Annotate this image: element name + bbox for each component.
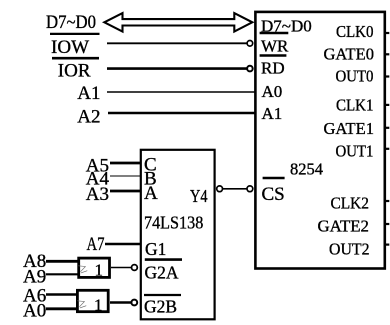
stub CLK1 [385,104,389,106]
wire A8 to OR1 [46,260,79,263]
svg-text:CLK1: CLK1 [336,96,374,115]
svg-text:OUT2: OUT2 [329,240,370,259]
svg-text:GATE2: GATE2 [318,216,370,235]
svg-text:A: A [144,183,158,204]
svg-text:G2A: G2A [145,262,179,282]
svg-text:A9: A9 [23,266,46,287]
svg-text:OUT1: OUT1 [336,141,374,160]
pin bubble RD [247,66,253,72]
svg-text:RD: RD [261,59,285,78]
svg-text:WR: WR [261,37,289,56]
wire A7 to G1 [105,243,141,246]
wire OR1 output [111,267,131,269]
stub CLK0 [385,32,389,34]
stub OUT2 [385,244,389,246]
svg-text:Y4: Y4 [190,186,208,206]
wire A9 to OR1 [46,273,79,275]
wire A4 to B [110,175,141,177]
svg-text:G2B: G2B [144,297,177,317]
svg-text:GATE1: GATE1 [324,119,375,138]
wire A1 to A0 [107,91,255,93]
svg-text:CLK0: CLK0 [336,22,374,41]
OR gate U3 (>=1) [77,290,108,311]
svg-text:IOW: IOW [51,37,89,58]
pin bubble G2B [131,300,137,306]
stub OUT1 [385,148,389,150]
decoder 74LS138 box [141,150,215,319]
svg-text:IOR: IOR [58,61,91,82]
svg-text:OUT0: OUT0 [336,66,374,85]
wire A3 to A [110,190,141,193]
svg-text:GATE0: GATE0 [324,44,375,63]
bus D7~D0 double arrow [104,13,252,31]
svg-text:A0: A0 [262,82,283,101]
svg-text:CLK2: CLK2 [331,194,370,213]
wire A2 to A1 [108,112,255,115]
pin bubble Y4 [217,186,223,192]
svg-text:A7: A7 [87,234,105,255]
svg-text:A3: A3 [86,184,109,205]
IC 8254 box [255,12,384,269]
svg-text:A1: A1 [77,83,100,104]
pin bubble G2A [132,265,138,271]
wire OR2 output [110,301,131,304]
overline IOW [50,33,100,35]
overline G2A [145,258,182,261]
wire IOW to WR [107,42,247,44]
svg-text:G1: G1 [145,239,166,259]
overline RD [260,54,287,57]
svg-text:A2: A2 [77,107,100,128]
overline G2B [144,294,181,296]
svg-text:74LS138: 74LS138 [144,213,204,233]
wire IOR to RD [107,67,247,70]
stub GATE2 [385,223,389,225]
wire Y4 to CS [223,188,247,190]
svg-text:A1: A1 [262,104,283,123]
overline WR [260,32,289,35]
wire A5 to C [110,162,141,165]
svg-text:D7~D0: D7~D0 [46,12,96,33]
stub GATE1 [385,127,389,129]
stub CLK2 [385,200,389,202]
overline CS [263,177,285,180]
svg-text:CS: CS [262,184,285,205]
svg-text:1: 1 [94,295,103,314]
svg-text:8254: 8254 [290,159,323,178]
OR gate U2 (>=1) [79,258,110,277]
overline IOR [52,57,99,60]
pin bubble WR [247,41,253,47]
svg-text:1: 1 [95,261,104,280]
wire A0 to OR2 [46,307,78,310]
pin bubble CS [247,186,253,192]
wire A6 to OR2 [46,293,78,295]
stub OUT0 [385,75,389,77]
svg-text:A0: A0 [23,300,46,321]
stub GATE0 [385,53,389,55]
